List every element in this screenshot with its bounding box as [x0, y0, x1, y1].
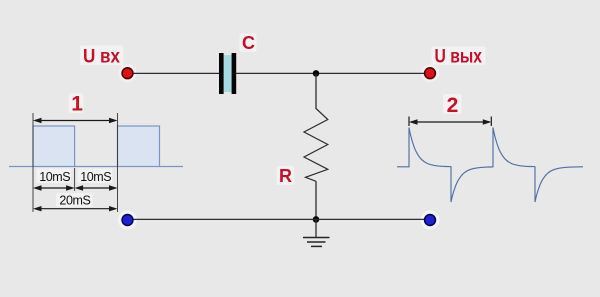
capacitor C1 right plate	[232, 53, 237, 94]
dimension extension tick middle (x=74.6)	[74, 168, 76, 191]
svg-text:U вх: U вх	[83, 47, 120, 68]
label 10mS second halo	[78, 169, 113, 184]
svg-text:20mS: 20mS	[59, 194, 90, 208]
node bottom-left terminal (blue)	[122, 215, 133, 226]
input waveform pulse 2	[118, 126, 160, 167]
wire: top rail left (U vx dot to capacitor)	[127, 72, 220, 74]
dimension arrow 20mS	[35, 208, 116, 210]
label U vyh halo	[432, 47, 486, 66]
wire: ground stem	[315, 219, 317, 237]
svg-text:R: R	[279, 166, 292, 186]
svg-text:C: C	[242, 33, 255, 53]
resistor R zigzag	[304, 109, 328, 182]
label 1 halo	[69, 94, 84, 114]
node bottom-left terminal halo	[118, 211, 137, 230]
label R halo	[277, 166, 295, 185]
label 2 halo	[443, 94, 462, 114]
dimension arrow period 1	[35, 120, 116, 122]
output waveform (differentiated spikes)	[397, 128, 583, 203]
junction bottom node	[313, 216, 320, 223]
wire: top rail right (capacitor to U vyh dot)	[236, 72, 425, 74]
ground symbol	[303, 237, 330, 239]
input waveform pulse 1	[33, 126, 75, 167]
label 20mS halo	[56, 193, 93, 207]
input waveform baseline segment 1	[9, 166, 33, 168]
svg-text:10mS: 10mS	[39, 170, 70, 184]
dimension extension tick left (x=33)	[32, 113, 34, 212]
dimension arrow 10mS first	[35, 187, 73, 189]
wire: junction down to resistor	[315, 73, 317, 109]
node bottom-right terminal halo	[421, 211, 440, 230]
dimension extension tick right (x=491.3)	[490, 117, 492, 127]
node bottom-right terminal (blue)	[425, 215, 436, 226]
node U vyh terminal (red)	[425, 68, 436, 79]
input waveform baseline segment 3	[160, 166, 184, 168]
svg-text:U вых: U вых	[435, 47, 483, 68]
capacitor C1 dielectric fill	[220, 55, 236, 92]
dimension extension tick right (x=117.5)	[117, 113, 119, 212]
label C halo	[240, 34, 257, 53]
label U vx halo	[80, 46, 124, 66]
capacitor C1 left plate	[219, 53, 224, 94]
node U vx terminal halo	[119, 64, 137, 82]
dimension arrow 10mS second	[77, 187, 116, 189]
junction top node	[313, 70, 320, 77]
svg-text:10mS: 10mS	[80, 170, 111, 184]
label 10mS first halo	[37, 169, 72, 184]
wire: resistor to bottom junction	[315, 181, 317, 219]
node U vx terminal (red)	[122, 68, 133, 79]
node U vyh terminal halo	[421, 64, 439, 82]
svg-text:1: 1	[71, 93, 83, 116]
dimension extension tick left (x=409)	[408, 117, 410, 127]
wire: bottom rail	[127, 218, 430, 220]
svg-text:2: 2	[447, 94, 459, 117]
dimension arrow period 2	[411, 121, 489, 123]
input waveform baseline segment 2	[75, 166, 118, 168]
